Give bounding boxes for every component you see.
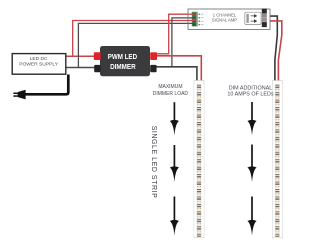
- svg-text:SIGNAL AMP: SIGNAL AMP: [212, 18, 237, 23]
- svg-text:10 AMPS OF LEDs: 10 AMPS OF LEDs: [227, 92, 273, 98]
- amp green input terminal block: [192, 12, 197, 27]
- LED strip 2: [272, 81, 282, 238]
- wire: dimmer red output to LED strip 1: [156, 56, 201, 83]
- amp symbol bar: [246, 14, 248, 23]
- dimmer input red tab: [94, 52, 101, 60]
- wire: dimmer black output to LED strip 1: [156, 67, 197, 83]
- svg-text:LED DC: LED DC: [30, 56, 48, 62]
- svg-text:MAXIMUM: MAXIMUM: [158, 84, 182, 90]
- wire: PSU red up to signal amp power: [73, 21, 194, 57]
- svg-text:PWM LED: PWM LED: [108, 52, 138, 61]
- amp output symbol box: [245, 12, 261, 24]
- flow arrow 6 (strip 2): [251, 197, 253, 224]
- svg-text:DIM ADDITIONAL: DIM ADDITIONAL: [229, 85, 272, 91]
- dimmer output black tab: [150, 65, 156, 72]
- amp output connector block: [262, 9, 267, 28]
- flow arrow 4 (strip 2): [251, 102, 253, 123]
- flow arrow 2 (strip 1): [173, 145, 175, 170]
- svg-text:DIMMER LOAD: DIMMER LOAD: [153, 91, 189, 97]
- svg-text:DIMMER: DIMMER: [110, 62, 136, 71]
- amp pin labels: [199, 14, 204, 26]
- wire: amp black output to LED strip 2: [267, 16, 278, 83]
- LED strip 1: [194, 81, 204, 238]
- wire: PSU black up to signal amp power: [78, 23, 193, 67]
- wire: PSU black output to dimmer input: [66, 67, 95, 69]
- amp terminal screws: [193, 13, 196, 26]
- PWM LED dimmer U1 body: [100, 46, 150, 76]
- svg-text:POWER SUPPLY: POWER SUPPLY: [19, 62, 59, 68]
- svg-text:SINGLE LED STRIP: SINGLE LED STRIP: [150, 126, 157, 199]
- amp symbol arrow 1: [251, 15, 257, 17]
- wire: PSU red output to dimmer input: [66, 55, 95, 57]
- wire: amp red output to LED strip 2: [267, 21, 282, 83]
- AC cord wire: [25, 75, 68, 95]
- LED DC power supply box: [12, 54, 66, 75]
- dimmer output red tab: [150, 52, 157, 60]
- wire: dimmer red output up to amp signal input: [156, 14, 194, 54]
- flow arrow 5 (strip 2): [251, 145, 253, 170]
- amp terminal separator: [197, 12, 199, 27]
- wire stubs over terminal: [189, 14, 196, 23]
- dimmer input black tab: [94, 65, 100, 72]
- flow arrow 1 (strip 1): [173, 102, 175, 123]
- AC plug: [13, 90, 25, 100]
- amp symbol arrow 2: [251, 20, 257, 22]
- signal amp U2 box: [188, 9, 270, 29]
- flow arrow 3 (strip 1): [173, 197, 175, 224]
- wire: dimmer black output up to amp signal input: [156, 18, 194, 67]
